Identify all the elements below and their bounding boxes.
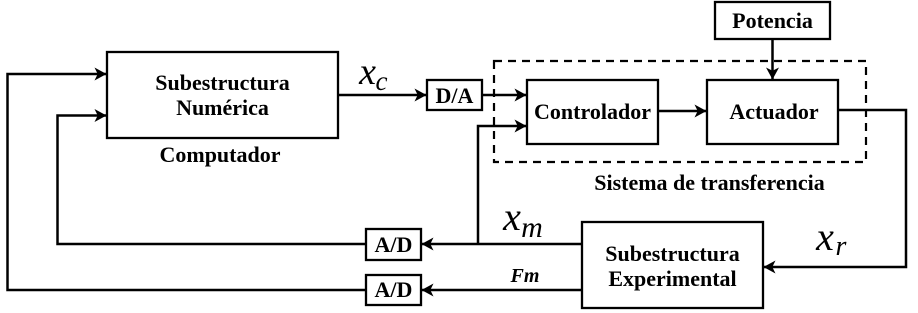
svg-text:m: m: [521, 211, 543, 244]
wire A/D 2 to Numerica: [8, 74, 367, 290]
svg-text:Subestructura: Subestructura: [155, 70, 289, 95]
block A/D 1: [366, 229, 421, 260]
wire Experimental to A/D 1 (x_m): [422, 243, 582, 246]
svg-text:r: r: [836, 231, 847, 262]
block Potencia: [715, 2, 830, 39]
block Actuador: [707, 80, 838, 144]
wire x_m branch up to Controlador: [478, 126, 526, 244]
svg-text:Computador: Computador: [159, 142, 280, 167]
block Subestructura Numerica: [107, 52, 338, 138]
svg-text:Fm: Fm: [510, 265, 540, 287]
svg-text:x: x: [358, 51, 376, 93]
svg-text:Experimental: Experimental: [608, 266, 736, 291]
svg-text:Sistema de transferencia: Sistema de transferencia: [594, 170, 825, 195]
svg-text:x: x: [502, 194, 521, 239]
svg-text:Controlador: Controlador: [534, 99, 651, 124]
svg-text:A/D: A/D: [375, 277, 413, 302]
wire Potencia to Actuador: [771, 39, 774, 79]
svg-text:Subestructura: Subestructura: [605, 241, 739, 266]
wire D/A to Controlador: [482, 94, 526, 97]
svg-text:Potencia: Potencia: [732, 8, 813, 33]
dashed box Sistema de transferencia: [494, 61, 866, 162]
block Controlador: [527, 80, 658, 144]
svg-text:A/D: A/D: [375, 232, 413, 257]
block D/A: [427, 80, 482, 110]
svg-text:Numérica: Numérica: [176, 95, 269, 120]
wire A/D 1 to Numerica: [58, 116, 367, 245]
wire Numerica to D/A: [338, 94, 426, 97]
block Subestructura Experimental: [582, 222, 763, 308]
wire Controlador to Actuador: [658, 110, 706, 113]
svg-text:D/A: D/A: [436, 83, 474, 108]
wire Actuador to Experimental (x_r feedback): [764, 110, 906, 267]
wire Experimental to A/D 2 (Fm): [422, 289, 582, 292]
svg-text:x: x: [815, 214, 834, 259]
svg-text:c: c: [376, 66, 388, 96]
svg-text:Actuador: Actuador: [729, 99, 818, 124]
block A/D 2: [366, 275, 421, 305]
